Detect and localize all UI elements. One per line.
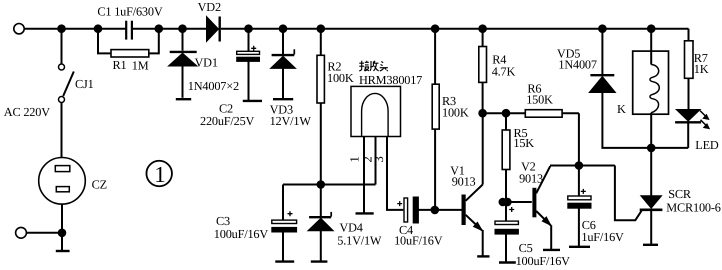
wire R1 branch right <box>149 29 159 54</box>
label R2 <box>327 60 341 74</box>
pin 1 wire <box>363 137 365 213</box>
label C5 <box>519 241 533 255</box>
capacitor C1 <box>126 21 132 40</box>
resistor R1 <box>111 50 149 57</box>
ground V2 emitter <box>543 249 560 251</box>
ground VD3 <box>273 98 293 100</box>
node junction VD3 <box>280 25 287 32</box>
svg-text:VD2: VD2 <box>198 0 221 14</box>
svg-text:1uF/16V: 1uF/16V <box>581 230 624 244</box>
svg-text:VD1: VD1 <box>195 56 218 70</box>
terminal input bottom-left <box>16 227 27 238</box>
node junction C1 right <box>156 25 163 32</box>
wire rail to R7 <box>688 29 690 41</box>
diode VD1 <box>168 29 197 98</box>
zener diode VD3 <box>271 29 296 98</box>
label R5 <box>514 126 528 140</box>
svg-text:10uF/16V: 10uF/16V <box>394 233 443 247</box>
pin label 1 <box>348 156 362 162</box>
node wire receiver output <box>283 184 376 186</box>
LED arrows <box>700 111 709 129</box>
label C3 <box>216 214 230 228</box>
label R7 <box>694 51 708 65</box>
resistor R6 <box>506 110 579 118</box>
wire CJ1 to socket CZ <box>61 103 63 158</box>
svg-text:15K: 15K <box>513 136 534 150</box>
diode VD5 <box>589 29 688 148</box>
label VD3 <box>270 103 293 117</box>
svg-text:100K: 100K <box>442 106 469 120</box>
node junction bottom-left <box>59 230 66 237</box>
svg-text:C1 1uF/630V: C1 1uF/630V <box>97 5 162 19</box>
svg-text:HRM380017: HRM380017 <box>359 73 422 87</box>
label LED <box>695 138 719 152</box>
wire V2 base <box>507 201 531 203</box>
resistor R5 <box>502 113 510 202</box>
node junction R5 top <box>503 110 510 117</box>
wire SCR gate <box>615 166 642 221</box>
svg-text:100uF/16V: 100uF/16V <box>516 254 571 268</box>
ground C2 <box>243 100 262 102</box>
ground stub bottom-left <box>56 233 70 251</box>
label receiver head (Chinese) <box>359 61 388 71</box>
figure number 1 circled <box>146 161 172 187</box>
label V2 type 9013 <box>519 172 543 186</box>
wire V2 collector <box>550 165 615 167</box>
label C1 value <box>97 5 162 19</box>
node junction R4 top <box>479 25 486 32</box>
resistor R3 <box>432 29 439 210</box>
wire R6 down <box>578 113 580 165</box>
svg-text:9013: 9013 <box>519 172 543 186</box>
label V1 <box>450 163 465 177</box>
svg-text:150K: 150K <box>526 93 553 107</box>
diode VD2 <box>207 17 220 42</box>
capacitor C4 <box>397 197 462 223</box>
terminal input top-left <box>14 24 24 34</box>
svg-text:220uF/25V: 220uF/25V <box>200 114 255 128</box>
svg-text:1K: 1K <box>694 62 709 76</box>
svg-text:100uF/16V: 100uF/16V <box>214 227 269 241</box>
label C4 <box>399 223 413 237</box>
label R1 value <box>113 58 149 72</box>
label C2 value <box>200 114 255 128</box>
svg-text:C5: C5 <box>519 241 533 255</box>
node junction C1 left <box>95 25 102 32</box>
svg-text:1M: 1M <box>132 58 149 72</box>
label VD4 value <box>337 233 382 247</box>
svg-text:1N4007: 1N4007 <box>558 58 596 72</box>
ground C3 <box>275 260 294 262</box>
wire top rail after VD2 <box>221 28 689 30</box>
node junction VD1 <box>179 25 186 32</box>
capacitor C6 <box>568 166 591 247</box>
svg-text:3: 3 <box>372 156 386 162</box>
node junction relay K top <box>648 25 655 32</box>
resistor R2 <box>317 29 324 185</box>
wire top rail VD2 to C1 node <box>133 28 207 30</box>
label K <box>617 102 626 116</box>
label CZ <box>92 178 107 192</box>
label R7 value <box>694 62 709 76</box>
label C6 value <box>581 230 624 244</box>
label VD2 <box>198 0 221 14</box>
svg-text:AC 220V: AC 220V <box>4 105 50 119</box>
wire CJ1 branch down <box>61 29 63 64</box>
ground C6 <box>569 246 590 248</box>
svg-text:100K: 100K <box>327 71 354 85</box>
label V1 type 9013 <box>452 174 476 188</box>
svg-text:4.7K: 4.7K <box>492 64 516 78</box>
label CJ1 <box>75 77 94 91</box>
svg-text:12V/1W: 12V/1W <box>270 114 312 128</box>
socket CZ <box>39 158 86 205</box>
svg-text:K: K <box>617 102 626 116</box>
wire CZ to bottom node <box>61 204 63 233</box>
svg-text:SCR: SCR <box>668 187 692 201</box>
ground V1 emitter <box>477 255 489 257</box>
svg-text:CJ1: CJ1 <box>75 77 94 91</box>
label AC 220V <box>4 105 50 119</box>
svg-text:R1: R1 <box>113 58 127 72</box>
LED <box>675 110 701 148</box>
label R5 value <box>513 136 534 150</box>
node junction R2 <box>318 25 325 32</box>
svg-text:LED: LED <box>695 138 719 152</box>
SCR MCR100-6 <box>640 148 663 244</box>
node junction R3 <box>432 25 439 32</box>
zener diode VD4 <box>308 185 333 262</box>
label VD4 <box>339 221 362 235</box>
capacitor C3 <box>272 211 297 261</box>
label R2 value <box>327 71 354 85</box>
svg-text:1N4007×2: 1N4007×2 <box>188 79 239 93</box>
wire top rail left <box>24 28 126 30</box>
label VD1 value 1N4007x2 <box>188 79 239 93</box>
label C2 <box>219 101 233 115</box>
label VD5 value 1N4007 <box>558 58 596 72</box>
label R6 <box>527 82 541 96</box>
transistor V2 <box>534 166 551 249</box>
switch CJ1 <box>59 64 74 103</box>
label V2 <box>521 160 536 174</box>
resistor R4 <box>479 29 487 114</box>
label VD3 value <box>270 114 312 128</box>
label SCR type MCR100-6 <box>666 201 720 215</box>
svg-text:1: 1 <box>154 162 166 187</box>
pin label 2 <box>360 156 374 162</box>
pin 3 wire <box>387 137 403 210</box>
label VD5 <box>557 46 580 60</box>
label R3 <box>442 94 456 108</box>
node junction K bottom / SCR anode <box>648 145 655 152</box>
capacitor C5 <box>495 202 518 262</box>
resistor R7 <box>685 41 694 110</box>
label C4 value <box>394 233 443 247</box>
label SCR <box>668 187 692 201</box>
transistor V1 <box>464 113 483 256</box>
label C6 <box>582 218 596 232</box>
node junction R4 bottom <box>479 110 486 117</box>
label C5 value <box>516 254 571 268</box>
label C3 value <box>214 227 269 241</box>
pin label 3 <box>372 156 386 162</box>
svg-text:CZ: CZ <box>92 178 107 192</box>
IR receiver HRM380017 box <box>351 86 401 136</box>
label R3 value <box>442 106 469 120</box>
svg-text:9013: 9013 <box>452 174 476 188</box>
ground C5 <box>499 261 516 263</box>
wire R1 branch left <box>98 29 111 54</box>
svg-text:MCR100-6: MCR100-6 <box>666 201 720 215</box>
wire C3 branch <box>282 185 284 221</box>
node junction CJ1 <box>58 25 65 32</box>
wire bottom left <box>27 232 63 234</box>
ground SCR cathode <box>643 244 658 246</box>
label R6 value <box>526 93 553 107</box>
node junction V1 base <box>432 207 439 214</box>
label HRM380017 <box>359 73 422 87</box>
ground VD1 <box>176 98 191 100</box>
svg-text:5.1V/1W: 5.1V/1W <box>337 233 382 247</box>
node junction VD5 top <box>599 25 606 32</box>
node junction C6/R6 <box>576 162 583 169</box>
wire R4 to R6 <box>483 112 504 114</box>
ground pin 1 <box>356 212 374 214</box>
pin 2 wire <box>375 137 377 185</box>
node junction C2 <box>245 25 252 32</box>
ground VD4 <box>311 260 328 262</box>
node junction VD4/R2 <box>318 181 325 188</box>
node junction R5/C5 double dot <box>500 199 511 206</box>
label R4 <box>492 52 506 66</box>
relay K coil <box>633 29 669 148</box>
capacitor C2 <box>237 29 260 101</box>
label R4 value <box>492 64 516 78</box>
label VD1 <box>195 56 218 70</box>
